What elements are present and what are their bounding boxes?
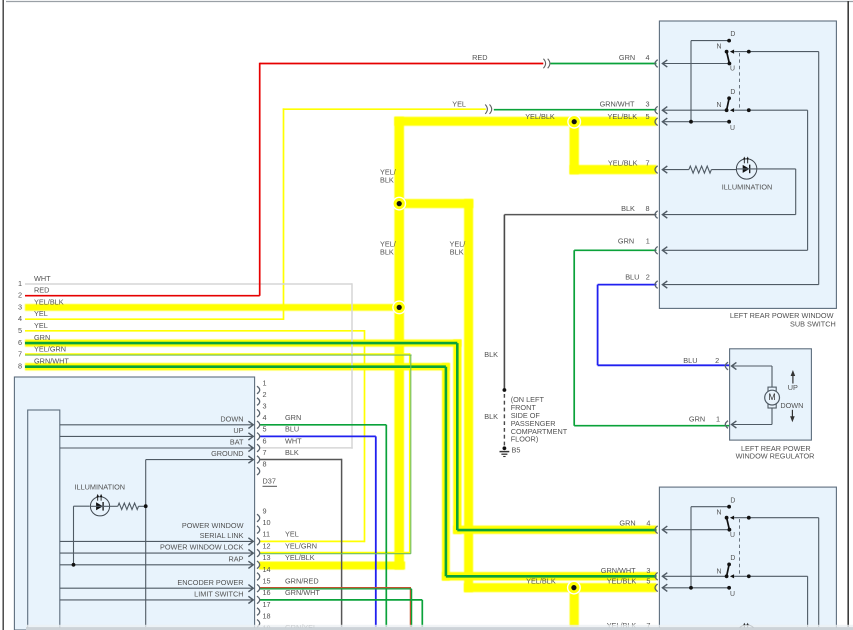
svg-text:POWER WINDOW LOCK: POWER WINDOW LOCK — [160, 543, 244, 552]
D37 internal wire UP to pin 5 — [60, 433, 254, 440]
label GRN lower pin4 — [619, 519, 635, 528]
label YEL/BLK mid — [525, 112, 555, 121]
svg-text:2: 2 — [646, 273, 650, 282]
svg-text:RED: RED — [472, 53, 487, 62]
label GRN/YEL pin 19 partial — [285, 623, 317, 630]
svg-text:1: 1 — [18, 279, 22, 288]
wire GRN sub switch pin 1 to regulator pin 1 — [574, 250, 729, 425]
lower box lower N wire — [730, 574, 808, 627]
svg-text:3: 3 — [646, 566, 650, 575]
svg-text:UP: UP — [233, 426, 243, 435]
svg-text:B5: B5 — [512, 446, 521, 455]
label 7 — [645, 159, 649, 168]
highlight vertical GRN/WHT row8 to lower pin 3 — [442, 363, 450, 581]
highlight branch vertical to pin 7 — [570, 117, 579, 174]
label YEL/BLK lower pin5 — [607, 576, 637, 585]
regulator pin sockets — [725, 362, 728, 428]
svg-text:15: 15 — [263, 577, 271, 586]
D37 internal wire SERIAL LINK to pin 11 — [60, 538, 254, 545]
wire YEL D37 pin 11 — [259, 540, 365, 542]
svg-text:GRN: GRN — [34, 333, 50, 342]
svg-text:GRN: GRN — [619, 53, 635, 62]
label GRN pin1 — [618, 236, 634, 245]
sub switch pin 3 internal wire — [662, 107, 726, 114]
label UP — [788, 383, 798, 392]
svg-text:D: D — [730, 89, 735, 96]
svg-text:7: 7 — [263, 448, 267, 457]
sub switch pin sockets — [655, 60, 658, 289]
svg-text:YEL: YEL — [34, 321, 48, 330]
svg-text:DOWN: DOWN — [780, 401, 803, 410]
svg-text:SUB SWITCH: SUB SWITCH — [790, 320, 836, 329]
svg-text:YEL/GRN: YEL/GRN — [285, 541, 317, 550]
svg-text:6: 6 — [18, 338, 22, 347]
svg-text:N: N — [717, 44, 722, 51]
lower box upper switch lever — [725, 516, 732, 532]
labels D37 pin numbers — [263, 378, 271, 630]
highlight band YEL/BLK to lower switch pin 5 — [464, 583, 657, 592]
label 3 — [645, 99, 649, 108]
inner module block — [28, 410, 60, 630]
wire BLU D37 pin 5 — [259, 436, 376, 627]
junction node resistor to ground wire — [144, 504, 148, 508]
svg-text:GRN: GRN — [689, 414, 705, 423]
D37 internal wire RAP to pin 13 — [60, 561, 254, 568]
D37 internal wire LIMIT SWITCH to pin 16 — [60, 596, 254, 603]
svg-text:8: 8 — [645, 204, 649, 213]
svg-text:POWER WINDOW: POWER WINDOW — [182, 521, 244, 530]
highlight band wire YEL/BLK row 3 — [25, 304, 405, 311]
label BLU regulator — [683, 356, 697, 365]
D37 illumination LED — [90, 494, 109, 516]
lower box lower switch lever — [725, 563, 731, 579]
wire BLU sub switch pin 2 to regulator pin 2 — [598, 285, 729, 366]
lower box illumination LED partial — [736, 623, 756, 630]
wire YEL row 4 vertical — [283, 108, 285, 320]
svg-text:YEL: YEL — [285, 530, 299, 539]
label YEL/BLK lower mid — [526, 576, 556, 585]
label YEL/BLK trunkA — [380, 167, 397, 184]
sub switch pin 4 internal wire — [662, 60, 729, 67]
svg-text:BLU: BLU — [625, 273, 639, 282]
node branch to pin 7 — [567, 115, 581, 129]
label YEL/BLK trunkB — [450, 239, 467, 256]
svg-text:BLK: BLK — [484, 350, 498, 359]
svg-text:18: 18 — [263, 612, 271, 621]
label YEL — [452, 99, 466, 108]
svg-text:YEL/BLK: YEL/BLK — [525, 112, 555, 121]
svg-text:10: 10 — [263, 518, 271, 527]
regulator pin 2 internal wire — [732, 362, 773, 387]
wire resistor to lamp — [711, 169, 736, 171]
label B5 — [512, 446, 521, 455]
label BLU pin2 — [625, 273, 639, 282]
wire YEL row 4 — [25, 318, 284, 320]
svg-text:YEL/BLK: YEL/BLK — [34, 297, 64, 306]
wire YEL row 5 — [25, 330, 365, 332]
D37 internal wire GROUND to pin 7 — [146, 456, 254, 627]
svg-text:4: 4 — [18, 314, 22, 323]
svg-text:7: 7 — [18, 349, 22, 358]
sub switch pin 5 internal wire — [662, 118, 729, 125]
label ground location — [511, 395, 568, 444]
lower switch lever upper box — [725, 96, 731, 112]
wire YEL/GRN row 7 yellow — [25, 353, 410, 355]
svg-text:9: 9 — [263, 506, 267, 515]
svg-text:BLK: BLK — [380, 175, 394, 184]
svg-text:U: U — [730, 532, 735, 539]
svg-text:GRN: GRN — [619, 519, 635, 528]
wire YEL/GRN D37 pin 12 yellow — [259, 552, 410, 554]
right rear power window sub switch box U2 (partial) — [659, 487, 836, 630]
svg-text:8: 8 — [263, 460, 267, 469]
wire GRN D37 pin 4 — [259, 425, 386, 627]
lower box upper N wire — [730, 516, 819, 627]
labels upper switch D N U — [717, 31, 736, 72]
svg-text:U: U — [730, 66, 735, 73]
D37 illumination LED wire left — [74, 506, 90, 565]
svg-text:ILLUMINATION: ILLUMINATION — [722, 183, 773, 192]
lower box pin 4 internal wire — [662, 526, 729, 533]
D37 internal wire LOCK to pin 12 — [60, 550, 254, 557]
regulator DOWN arrow — [790, 410, 795, 423]
label YEL/BLK trunkA lower — [380, 239, 397, 256]
node U contact upper box — [727, 120, 731, 124]
label ILLUMINATION sub switch — [722, 183, 773, 192]
svg-text:5: 5 — [646, 576, 650, 585]
sub switch D contact wire upper — [691, 41, 729, 123]
lower box D contact wire — [691, 507, 729, 589]
svg-text:UP: UP — [788, 383, 798, 392]
connector D37 pin sockets — [257, 386, 260, 627]
wire YEL/GRN row7-pin12 vertical yellow — [409, 353, 411, 553]
label 3 lower — [646, 566, 650, 575]
sub switch illumination LED — [736, 157, 756, 180]
svg-text:D: D — [730, 555, 735, 562]
label 1 regulator — [716, 414, 720, 423]
node lower box lower N wire — [747, 574, 751, 578]
highlight band YEL/BLK to sub switch pin 5 — [394, 117, 656, 126]
label left pin 6 GRN — [18, 333, 50, 347]
label GRN/WHT pin3 — [600, 99, 635, 108]
svg-text:U: U — [730, 125, 735, 132]
wire WHT row 1 — [25, 283, 352, 285]
label GRN pin4 — [619, 53, 635, 62]
node lower box upper N wire — [747, 516, 751, 520]
wire from upper switch to pin 2 — [662, 52, 818, 289]
svg-text:D37: D37 — [263, 476, 276, 485]
wire YEL top horizontal — [283, 108, 486, 110]
svg-text:GRN/RED: GRN/RED — [285, 577, 319, 586]
junction node on RAP wire — [72, 563, 76, 567]
label 4 — [645, 53, 649, 62]
svg-text:YEL: YEL — [452, 99, 466, 108]
highlight band wire GRN/WHT row 8 — [25, 363, 450, 370]
highlight vertical YEL/BLK to lower pin 7 — [570, 583, 579, 627]
label 8 — [645, 204, 649, 213]
svg-text:GRN: GRN — [618, 236, 634, 245]
sub switch illumination resistor — [689, 166, 712, 173]
svg-text:BAT: BAT — [230, 438, 244, 447]
svg-text:BLK: BLK — [450, 247, 464, 256]
highlight vertical GRN row6 to lower pin 4 — [453, 340, 461, 534]
wire GRN to sub switch pin 4 — [551, 63, 657, 65]
svg-text:SERIAL LINK: SERIAL LINK — [200, 531, 244, 540]
svg-text:2: 2 — [263, 390, 267, 399]
label DOWN — [780, 401, 803, 410]
label BLK upper — [484, 350, 498, 359]
svg-text:D: D — [730, 31, 735, 38]
mechanical link dashed upper — [739, 53, 741, 109]
label left pin 7 YEL/GRN — [18, 344, 66, 358]
label YEL/BLK pin5 — [607, 112, 637, 121]
svg-text:DOWN: DOWN — [220, 414, 243, 423]
svg-text:4: 4 — [646, 519, 650, 528]
svg-text:WINDOW REGULATOR: WINDOW REGULATOR — [736, 451, 815, 460]
wire YEL row5 to D37 pin 11 vertical — [364, 330, 366, 542]
label 5 lower — [646, 576, 650, 585]
highlight trunk B YEL/BLK vertical — [464, 199, 473, 592]
label RED — [472, 53, 487, 62]
svg-text:GRN/WHT: GRN/WHT — [600, 99, 635, 108]
labels lower switch D N U — [717, 89, 736, 132]
svg-text:RED: RED — [34, 286, 49, 295]
svg-text:4: 4 — [645, 53, 649, 62]
node junction lower box pin5 — [689, 586, 693, 590]
highlight band YEL/BLK row 13 D37 — [259, 562, 405, 570]
label 4 lower — [646, 519, 650, 528]
labels lower box switch1 D N U — [717, 497, 736, 538]
svg-text:YEL/BLK: YEL/BLK — [608, 159, 638, 168]
svg-text:14: 14 — [263, 565, 271, 574]
wire RED vertical — [259, 63, 261, 296]
node U contact lower box — [727, 586, 731, 590]
mechanical link dashed lower — [739, 519, 741, 575]
motor M1 — [765, 387, 780, 408]
svg-text:N: N — [717, 102, 722, 109]
svg-text:YEL/BLK: YEL/BLK — [607, 576, 637, 585]
svg-text:5: 5 — [645, 112, 649, 121]
label 1 — [646, 236, 650, 245]
highlight band YEL/BLK branch to trunk B — [396, 199, 473, 208]
svg-text:GROUND: GROUND — [211, 449, 243, 458]
lower switch N wire right — [730, 108, 808, 112]
svg-text:BLU: BLU — [683, 356, 697, 365]
label left pin 5 YEL — [18, 321, 48, 335]
node on upper N wire — [747, 50, 751, 54]
svg-text:GRN/WHT: GRN/WHT — [601, 566, 636, 575]
regulator pin 1 internal wire — [732, 408, 773, 428]
wire BLK vertical to splice — [503, 215, 505, 390]
label GRN/WHT lower pin3 — [601, 566, 636, 575]
labels lower box switch2 D N U — [717, 555, 736, 598]
ground B5 — [500, 446, 510, 456]
wire BLK D37 pin 7 — [259, 459, 342, 461]
svg-text:BLU: BLU — [285, 425, 299, 434]
label left pin 1 WHT — [18, 274, 51, 288]
labels D37 wire colors — [285, 413, 320, 597]
regulator UP arrow — [791, 370, 796, 384]
svg-text:BLK: BLK — [484, 412, 498, 421]
D37 illumination resistor — [110, 503, 146, 509]
svg-text:U: U — [730, 591, 735, 598]
node D contact lower box upper switch — [727, 505, 731, 509]
svg-text:GRN: GRN — [285, 413, 301, 422]
svg-text:13: 13 — [263, 553, 271, 562]
wire WHT vertical row1 to D37 pin 6 — [351, 283, 353, 448]
svg-text:LIMIT SWITCH: LIMIT SWITCH — [194, 590, 243, 599]
node junction pin5 and D wire — [689, 120, 693, 124]
svg-text:7: 7 — [645, 159, 649, 168]
D37 internal wire DOWN to pin 4 — [60, 421, 254, 428]
svg-text:2: 2 — [18, 291, 22, 300]
svg-text:4: 4 — [263, 413, 267, 422]
D37 internal wire ENCODER POWER to pin 15 — [60, 585, 254, 592]
label left pin 3 YEL/BLK — [18, 297, 64, 311]
label 2 regulator — [715, 356, 719, 365]
svg-text:2: 2 — [715, 356, 719, 365]
label BLK lower — [484, 412, 498, 421]
label 2 — [646, 273, 650, 282]
left rear power window regulator box M1 — [730, 349, 812, 440]
svg-text:D: D — [730, 497, 735, 504]
lower box pin 3 internal wire — [662, 573, 726, 580]
svg-text:3: 3 — [645, 99, 649, 108]
lower box pin 5 internal wire — [662, 584, 729, 591]
splice node on BLK wire — [503, 388, 507, 392]
node lower pin5 branch — [567, 581, 581, 595]
svg-text:17: 17 — [263, 600, 271, 609]
svg-text:N: N — [717, 568, 722, 575]
wire BLK sub switch pin 8 — [504, 214, 656, 216]
label GRN regulator — [689, 414, 705, 423]
wire lamp to pin 8 — [662, 169, 795, 218]
svg-text:N: N — [717, 510, 722, 517]
svg-text:ILLUMINATION: ILLUMINATION — [75, 483, 126, 492]
svg-text:FLOOR): FLOOR) — [511, 435, 539, 444]
highlight band GRN to lower switch pin 4 — [453, 526, 656, 534]
svg-text:6: 6 — [263, 436, 267, 445]
svg-text:YEL: YEL — [34, 309, 48, 318]
node trunk B branch — [392, 197, 406, 211]
svg-text:BLK: BLK — [285, 448, 299, 457]
svg-text:5: 5 — [18, 326, 22, 335]
wire RED top horizontal — [260, 63, 544, 65]
wire YEL/GRN green parts — [25, 355, 412, 554]
svg-text:YEL/BLK: YEL/BLK — [285, 553, 315, 562]
label D37 — [263, 476, 278, 486]
wire from lower switch to pin 1 — [662, 110, 807, 254]
svg-text:1: 1 — [646, 236, 650, 245]
highlight trunk A YEL/BLK vertical — [394, 117, 404, 570]
node on lower N wire — [747, 108, 751, 112]
wire GRN row 6 highlighted — [25, 343, 657, 530]
wire RED row 2 — [25, 295, 260, 297]
svg-text:WHT: WHT — [34, 274, 51, 283]
svg-text:8: 8 — [18, 362, 22, 371]
label YEL/BLK pin7 — [608, 159, 638, 168]
svg-text:YEL/BLK: YEL/BLK — [526, 576, 556, 585]
label regulator box — [736, 444, 815, 460]
svg-text:5: 5 — [263, 425, 267, 434]
lower sub switch pin sockets — [655, 526, 658, 592]
svg-text:WHT: WHT — [285, 436, 302, 445]
svg-text:BLK: BLK — [621, 204, 635, 213]
inline connector YEL to GRN/WHT — [485, 105, 492, 114]
label left pin 4 YEL — [18, 309, 48, 323]
svg-text:ENCODER POWER: ENCODER POWER — [177, 578, 243, 587]
svg-text:1: 1 — [263, 378, 267, 387]
label motor M — [768, 392, 775, 402]
highlight band wire GRN row 6 — [25, 340, 461, 347]
left rear power window sub switch box U1 — [659, 21, 836, 308]
label left pin 8 GRN/WHT — [18, 357, 69, 371]
svg-text:3: 3 — [263, 402, 267, 411]
label sub switch box — [730, 311, 836, 329]
wire GRN/RED D37 pin 15 — [259, 588, 412, 627]
labels D37 internal signals — [160, 414, 244, 598]
svg-text:M: M — [768, 392, 775, 402]
power window motor module connector box D37 — [14, 377, 254, 630]
label BLK pin8 — [621, 204, 635, 213]
wire BLK D37 pin7 vertical down — [341, 459, 343, 627]
svg-text:16: 16 — [263, 588, 271, 597]
svg-text:12: 12 — [263, 541, 271, 550]
highlight band GRN/WHT to lower switch pin 3 — [442, 572, 657, 581]
wire GRN/WHT to sub switch pin 3 — [494, 109, 657, 111]
svg-text:BLK: BLK — [380, 247, 394, 256]
upper switch lever — [725, 50, 732, 66]
svg-text:GRN/WHT: GRN/WHT — [34, 357, 69, 366]
label 5 — [645, 112, 649, 121]
label ILLUMINATION D37 — [75, 483, 126, 492]
wire WHT D37 pin 6 — [259, 447, 353, 449]
svg-text:RAP: RAP — [228, 554, 243, 563]
label left pin 2 RED — [18, 286, 49, 300]
wire GRN/WHT row 8 highlighted — [25, 367, 657, 577]
svg-text:GRN/WHT: GRN/WHT — [285, 588, 320, 597]
svg-text:YEL/GRN: YEL/GRN — [34, 344, 66, 353]
wire GRN/WHT D37 pin 16 — [259, 600, 422, 627]
svg-text:11: 11 — [263, 530, 271, 539]
node D contact upper switch — [727, 39, 731, 43]
label YEL/BLK lower pin7 partial — [607, 621, 651, 630]
svg-text:YEL/BLK: YEL/BLK — [607, 112, 637, 121]
sub switch illumination wire pin 7 — [662, 166, 689, 173]
node row3 joins trunk A — [392, 300, 406, 314]
upper switch N wire right — [730, 50, 819, 54]
D37 internal wire BAT to pin 6 — [60, 444, 254, 451]
highlight band YEL/BLK to sub switch pin 7 — [570, 165, 657, 174]
wire BLK dashed to ground — [503, 394, 505, 446]
inline connector RED to GRN — [543, 59, 550, 68]
svg-text:3: 3 — [18, 302, 22, 311]
svg-text:1: 1 — [716, 414, 720, 423]
